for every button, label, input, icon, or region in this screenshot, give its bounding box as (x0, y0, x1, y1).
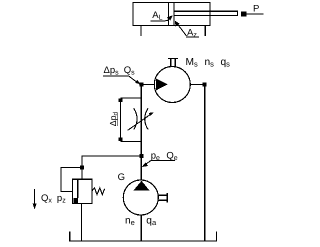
relief valve arrow (77, 179, 79, 198)
svg-text:G: G (118, 172, 125, 183)
dimension pd line (121, 98, 142, 142)
svg-text:ns: ns (205, 57, 215, 69)
motor shaft (168, 58, 178, 66)
node pilot junction (80, 166, 84, 170)
cylinder leg left (140, 26, 142, 37)
cylinder body (133, 3, 210, 26)
svg-text:P: P (253, 4, 259, 15)
flow arrow Qx (34, 189, 36, 205)
relief valve drain (81, 204, 83, 241)
throttle adjust arrow (128, 114, 152, 130)
tank (70, 232, 217, 242)
cylinder leg right (204, 26, 206, 37)
pump triangle (133, 181, 149, 191)
wire main vertical (140, 85, 142, 181)
node main top junction (139, 83, 143, 87)
pump shaft (158, 193, 167, 202)
cylinder rod (174, 11, 237, 15)
wire branch to relief valve (82, 156, 141, 179)
throttle valve arcs (134, 108, 148, 129)
relief valve spring (92, 188, 105, 195)
node mid junction (139, 154, 143, 158)
svg-text:ne: ne (125, 216, 135, 228)
node motor outlet dot (203, 83, 207, 87)
svg-text:qs: qs (221, 57, 231, 69)
wire motor outlet (190, 84, 204, 86)
pump G circle (123, 180, 158, 215)
svg-text:Ms: Ms (186, 57, 199, 69)
force arrow P (241, 12, 247, 17)
pump suction wire (140, 215, 142, 241)
wire motor inlet (141, 84, 154, 86)
motor U1 circle (154, 67, 190, 103)
svg-text:qa: qa (146, 216, 157, 228)
motor triangle (156, 78, 168, 90)
relief valve V1 box (73, 179, 92, 203)
cylinder piston (169, 3, 175, 26)
pilot line (61, 168, 82, 192)
wire motor return (204, 85, 206, 241)
